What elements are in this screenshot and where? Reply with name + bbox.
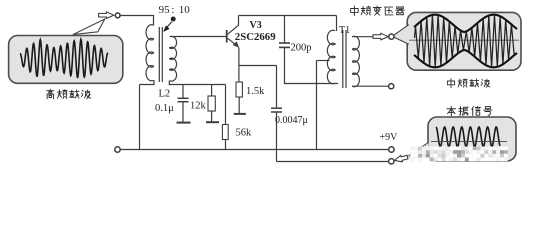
svg-text:12k: 12k (190, 101, 207, 112)
transformer primary winding (95) (146, 25, 153, 81)
callout tail IF (389, 25, 409, 45)
svg-text:95: 95 (159, 4, 171, 16)
terminal bottom-left (115, 147, 120, 152)
pointer arrow to core (164, 22, 172, 32)
label L2 (159, 89, 171, 100)
svg-text:V3: V3 (250, 20, 262, 31)
waveform IF carrier (409, 15, 519, 68)
terminal oscillator (389, 159, 394, 164)
svg-text:0.0047μ: 0.0047μ (275, 115, 308, 126)
transistor V3 base bar (226, 30, 228, 43)
capacitor 200p (279, 16, 338, 84)
wire T1 tap (317, 60, 330, 62)
input hollow arrow (99, 12, 114, 19)
ground bar under 1.5k (234, 113, 246, 115)
label V3 (250, 20, 262, 31)
svg-text:200p: 200p (291, 42, 312, 53)
svg-text::: : (171, 4, 174, 16)
wire input to transformer (120, 16, 153, 26)
svg-text:L2: L2 (159, 89, 171, 100)
terminal IF bottom (389, 84, 394, 89)
label 200p (291, 42, 312, 53)
label 高频载波 (47, 89, 91, 99)
transistor collector (228, 16, 239, 35)
transformer T1 primary winding (327, 16, 336, 84)
transistor emitter (228, 38, 239, 82)
wire emitter junction (239, 65, 277, 67)
svg-text:0.1μ: 0.1μ (155, 103, 174, 114)
label 12k (190, 101, 207, 112)
capacitor 0.1u (178, 85, 189, 123)
wire T1 secondary bottom (352, 85, 388, 87)
wire T1 secondary top (352, 36, 373, 38)
svg-text:+9V: +9V (380, 132, 399, 143)
lower rail (277, 161, 389, 163)
pointer dot (171, 17, 176, 22)
output hollow arrow (373, 33, 388, 40)
label +9V (380, 132, 399, 143)
label 0.1μ (155, 103, 174, 114)
label 1.5k (246, 86, 265, 97)
callout tail LO (395, 142, 429, 161)
label 2SC2669 (235, 31, 276, 43)
resistor 56k (222, 85, 228, 150)
transformer T1 core (343, 30, 346, 88)
svg-text:2SC2669: 2SC2669 (235, 31, 276, 43)
label 95:10 (159, 4, 191, 16)
waveform LO (431, 127, 507, 147)
label 56k (236, 128, 253, 139)
transformer secondary winding L2 (10) (170, 36, 177, 81)
oscillator hollow arrow (394, 154, 409, 164)
callout box LO (本振信号) (428, 117, 516, 161)
ground bar under 12k (206, 121, 219, 123)
svg-text:56k: 56k (236, 128, 253, 139)
svg-text:10: 10 (179, 4, 191, 16)
callout box IF carrier (中频载波) (407, 12, 521, 70)
svg-text:T1: T1 (339, 25, 350, 36)
terminal +9V (389, 147, 394, 152)
resistor 12k (208, 85, 215, 122)
mosaic watermark (410, 147, 508, 162)
label 本振信号 (447, 106, 492, 116)
resistor 1.5k (236, 82, 242, 113)
label 中频载波 (447, 79, 490, 88)
label 0.0047μ (275, 115, 308, 126)
label T1 (339, 25, 350, 36)
bottom rail (ground) (120, 149, 388, 151)
transformer core (159, 27, 162, 82)
wire left vertical (139, 85, 141, 150)
wire primary bottom (140, 80, 155, 85)
wire L2 to base (171, 36, 227, 38)
waveform HF carrier (20, 39, 108, 77)
label 中频变压器 (351, 6, 405, 16)
callout tail to input terminal (73, 19, 105, 35)
terminal IF top (389, 34, 394, 39)
input terminal circle (115, 13, 120, 18)
callout box HF carrier (高频载波) (9, 36, 123, 84)
wire secondary bottom (169, 81, 225, 85)
capacitor 0.0047u (271, 66, 282, 162)
transformer T1 secondary winding (353, 36, 360, 86)
top rail (collector) (239, 15, 337, 17)
wire tap to rail (316, 61, 318, 150)
ground bar under 0.1u (177, 122, 191, 124)
svg-text:1.5k: 1.5k (246, 86, 265, 97)
